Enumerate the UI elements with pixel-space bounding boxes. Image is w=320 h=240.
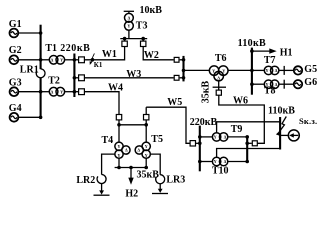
- tie wire between T4 and T5 feeders: [119, 124, 146, 126]
- node bus B at W1: [73, 58, 77, 62]
- wire T4 to 35kV bus E: [118, 158, 120, 167]
- wire bus D to T8: [252, 83, 264, 85]
- generator bus A lower section: [40, 78, 42, 119]
- svg-text:T7: T7: [264, 55, 276, 66]
- svg-text:220кВ: 220кВ: [60, 43, 90, 54]
- svg-text:W6: W6: [233, 96, 248, 107]
- svg-text:К1: К1: [94, 61, 103, 69]
- T10 stub to 110kV system: [217, 149, 281, 158]
- svg-text:LR3: LR3: [166, 175, 185, 186]
- breaker square T3-W2: [141, 41, 146, 46]
- reactor LR2: [76, 175, 106, 187]
- svg-text:Δ: Δ: [217, 75, 220, 80]
- wire W4: [85, 83, 124, 115]
- wire W6: [219, 95, 264, 143]
- breaker square W3 end: [174, 75, 179, 80]
- generator G6: [294, 77, 317, 88]
- 220kV bus G (bottom): [190, 117, 218, 171]
- node bar F at T10: [245, 160, 249, 164]
- reactor LR3: [156, 175, 186, 186]
- svg-text:Y: Y: [145, 153, 148, 158]
- svg-text:W1: W1: [102, 49, 117, 60]
- wire T6 to 110kV bus D: [228, 69, 252, 71]
- generator G2: [9, 45, 22, 64]
- svg-text:T2: T2: [48, 76, 60, 87]
- transformer T4: [102, 135, 131, 158]
- wire W5: [146, 97, 190, 143]
- breaker square on W1 at bus B: [79, 57, 85, 63]
- svg-text:G2: G2: [9, 45, 22, 56]
- svg-text:Sк.з.: Sк.з.: [299, 116, 317, 126]
- svg-text:Y: Y: [145, 144, 148, 149]
- wire T7 to G5: [279, 69, 294, 71]
- node bus B at W3: [73, 76, 77, 80]
- junction bar C: [182, 56, 184, 82]
- wire W3: [85, 69, 174, 80]
- node bus E at T4: [117, 166, 121, 170]
- LR3 arrow to section bar: [158, 189, 163, 193]
- wire T8 to G6: [279, 83, 294, 85]
- generator G4: [9, 103, 22, 122]
- T9 stub to 110kV system: [217, 122, 281, 133]
- fault K1: [90, 53, 103, 69]
- wire breaker to bar C: [180, 59, 184, 61]
- svg-text:W5: W5: [167, 97, 182, 108]
- wire bus G to T9: [200, 136, 213, 138]
- node split bar left: [123, 37, 127, 41]
- wire bar H to system source: [280, 134, 288, 136]
- svg-text:110кВ: 110кВ: [268, 106, 295, 117]
- svg-text:G4: G4: [9, 103, 22, 114]
- wire split bar to breaker W1 branch: [124, 39, 126, 41]
- breaker square T4: [116, 115, 121, 120]
- load H1 arrow: [252, 47, 293, 58]
- LR3 section bar: [152, 193, 168, 195]
- T6 tertiary stub: [218, 81, 220, 91]
- wire T1 to bus B: [65, 59, 75, 61]
- transformer T5: [135, 134, 163, 158]
- node bar C at W2: [182, 58, 186, 62]
- transformer T3: [124, 5, 163, 32]
- generator G3: [9, 77, 22, 96]
- generator G5: [294, 64, 317, 75]
- svg-text:Y: Y: [212, 68, 215, 73]
- wire G4 to bus A: [18, 116, 40, 118]
- junction bar F: [246, 135, 248, 162]
- svg-text:220кВ: 220кВ: [190, 117, 218, 128]
- svg-text:Δ: Δ: [275, 68, 278, 73]
- wire bar C to T6: [184, 69, 210, 71]
- node bus G at T10: [198, 160, 202, 164]
- breaker tick G5: [283, 66, 285, 75]
- wire W5 riser to T5 breaker: [145, 107, 147, 114]
- node bus G at W5: [198, 142, 202, 146]
- node on bus A at G3/T2: [39, 90, 43, 94]
- svg-text:Y: Y: [118, 144, 121, 149]
- wire bus B to breaker W3: [76, 77, 79, 79]
- svg-text:Y: Y: [127, 24, 130, 29]
- breaker square on W3 at bus B: [79, 75, 85, 81]
- svg-text:Y: Y: [265, 68, 268, 73]
- 110kV bus D: [238, 38, 266, 95]
- breaker square W6 end: [252, 141, 257, 146]
- breaker square below T6: [216, 90, 221, 95]
- svg-text:Y: Y: [60, 90, 63, 95]
- wire G2 to bus A: [18, 59, 40, 61]
- wire bus A to T2: [41, 91, 50, 93]
- wire T3 down to split bar: [128, 30, 130, 38]
- node bar F at T9: [245, 135, 249, 139]
- svg-text:H1: H1: [280, 47, 293, 58]
- wire T4 to LR2: [102, 154, 115, 175]
- breaker square W2 end: [174, 57, 179, 62]
- wire T9 to bar F: [228, 136, 247, 138]
- node bar C at T6: [182, 69, 186, 73]
- svg-text:G1: G1: [9, 19, 22, 30]
- svg-text:Y: Y: [214, 159, 217, 164]
- svg-text:Y: Y: [222, 68, 225, 73]
- transformer T10: [212, 157, 229, 176]
- svg-text:G3: G3: [9, 77, 22, 88]
- svg-text:G6: G6: [304, 77, 317, 88]
- svg-text:Δ: Δ: [128, 15, 131, 20]
- wire bus B to breaker W4: [76, 91, 79, 93]
- T3 split bar: [120, 38, 147, 40]
- LR2 arrow to section bar: [99, 190, 104, 194]
- svg-text:Y: Y: [60, 58, 63, 63]
- svg-text:H2: H2: [125, 188, 138, 199]
- wire breaker to T5: [145, 120, 147, 142]
- node bus B at W4: [73, 90, 77, 94]
- wire split bar to breaker W2 branch: [142, 39, 144, 41]
- svg-text:Δ: Δ: [51, 58, 54, 63]
- T6 35kV terminal bar: [201, 81, 226, 104]
- transformer T9: [212, 124, 242, 141]
- wire bus A to T1: [41, 59, 50, 61]
- wire bus G to T10: [200, 161, 213, 163]
- node bus D at H1: [250, 49, 254, 53]
- breaker square T3-W1: [122, 41, 127, 46]
- wire G1 to bus A: [18, 32, 40, 34]
- svg-text:T4: T4: [102, 135, 114, 146]
- wire LR2 down: [101, 183, 103, 192]
- node bus G at T9: [198, 135, 202, 139]
- generator G1: [9, 19, 22, 38]
- reactor LR1: [20, 64, 45, 77]
- svg-text:Y: Y: [214, 135, 217, 140]
- breaker square on W4 at bus B: [79, 89, 85, 95]
- wire breaker to bus G: [196, 142, 200, 144]
- node tie at T5: [144, 123, 148, 127]
- wire W1: [85, 47, 125, 60]
- svg-text:W2: W2: [144, 50, 159, 61]
- transformer T6: [209, 53, 228, 81]
- system fault bolt: [276, 117, 286, 136]
- wire T10 to bar F: [228, 161, 247, 163]
- node bus D at T7: [250, 69, 254, 73]
- generator bus A upper section: [40, 25, 42, 69]
- load H2 arrow: [125, 168, 138, 200]
- svg-text:LR2: LR2: [76, 175, 95, 186]
- wire bus D to T7: [252, 69, 264, 71]
- 220kV bus B: [60, 43, 90, 97]
- node bar C at W3: [182, 76, 186, 80]
- svg-text:110кВ: 110кВ: [238, 38, 266, 49]
- svg-text:T8: T8: [264, 85, 276, 96]
- node on bus A at G4: [39, 116, 43, 120]
- svg-text:W3: W3: [126, 69, 141, 80]
- transformer T8: [264, 80, 279, 96]
- svg-text:T5: T5: [151, 134, 163, 145]
- wire G3 to bus A: [18, 91, 40, 93]
- wire breaker to T4: [118, 120, 120, 142]
- system source Sk.z: [288, 116, 317, 141]
- svg-text:W4: W4: [108, 83, 123, 94]
- transformer T2: [48, 76, 64, 96]
- svg-text:Δ: Δ: [51, 90, 54, 95]
- node tie at T4: [117, 123, 121, 127]
- wire W2: [143, 47, 173, 61]
- svg-text:35кВ: 35кВ: [201, 81, 212, 104]
- node on bus A at G2/T1: [39, 58, 43, 62]
- wire T5 to LR3: [150, 154, 160, 175]
- node bus D at T8: [250, 82, 254, 86]
- svg-text:T3: T3: [136, 21, 148, 32]
- wire breaker to bar F: [247, 142, 252, 144]
- transformer T1: [45, 43, 64, 64]
- 110kV system bar H: [268, 106, 295, 150]
- 35kV bus E: [115, 168, 160, 181]
- wire LR3 down: [159, 184, 161, 191]
- breaker square W5 end: [190, 141, 195, 146]
- node bus E at T5: [144, 166, 148, 170]
- wire T5 to 35kV bus E: [145, 158, 147, 167]
- breaker tick G6: [283, 80, 285, 89]
- svg-text:G5: G5: [304, 64, 317, 75]
- svg-text:T10: T10: [212, 166, 229, 177]
- breaker square T5: [144, 115, 149, 120]
- svg-text:T6: T6: [215, 53, 227, 64]
- wire breaker to bar C: [180, 77, 184, 79]
- svg-text:T1: T1: [45, 43, 57, 54]
- transformer T7: [264, 55, 279, 75]
- wire bus B to breaker W1: [76, 59, 79, 61]
- node bar F at W6: [245, 142, 249, 146]
- LR2 section bar: [94, 194, 110, 196]
- svg-text:T9: T9: [231, 124, 243, 135]
- node bus E at H2: [129, 166, 133, 170]
- svg-text:LR1: LR1: [20, 64, 39, 75]
- svg-text:Y: Y: [118, 153, 121, 158]
- wire T2 to bus B: [65, 91, 75, 93]
- node split bar right: [141, 37, 145, 41]
- node on bus A at G1: [39, 31, 43, 35]
- svg-text:10кВ: 10кВ: [140, 5, 163, 16]
